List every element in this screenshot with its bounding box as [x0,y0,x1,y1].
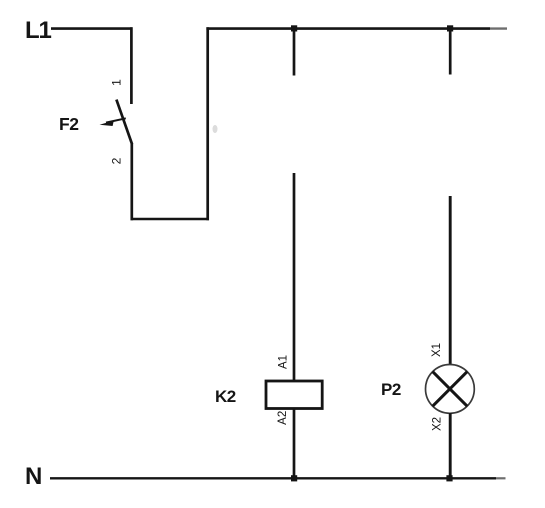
wire K2 branch stub from rail [293,29,296,76]
wire bottom of F2 loop [131,218,210,221]
junction dot at P2 branch on L1 rail [447,25,453,31]
wire P2 branch lower segment to N rail [449,413,452,479]
lamp P2 circle [426,365,475,414]
wire K2 branch upper segment [293,173,296,382]
wire below contact F2 [130,143,133,220]
junction dot at K2 branch on N rail [291,475,297,481]
wire N rail [50,477,496,479]
svg-text:2: 2 [110,157,124,164]
contact F2 actuator arrowhead [100,121,114,126]
wire P2 branch stub from rail [449,29,452,75]
svg-text:K2: K2 [215,387,236,406]
coil K2 [266,381,322,409]
svg-text:X2: X2 [432,417,444,431]
junction dot at K2 branch on L1 rail [291,25,297,31]
svg-text:A1: A1 [278,355,290,369]
contact F2 blade [116,100,132,144]
wire N rail faded right end [496,477,506,479]
wire L1 rail faded right end [490,27,507,29]
svg-text:1: 1 [110,79,124,86]
wire K2 branch lower segment to N rail [293,409,296,480]
wire L1 rail right segment [206,27,490,30]
svg-text:P2: P2 [381,380,401,399]
svg-text:A2: A2 [277,411,289,425]
wire L1 rail left segment [51,27,133,30]
wire P2 branch upper segment [449,196,452,365]
wire drop from L1 rail to contact F2 [130,27,133,104]
contact F2 actuator arrow shaft [106,118,126,122]
junction dot at P2 branch on N rail [446,475,452,481]
svg-text:L1: L1 [25,17,51,44]
faint smudge artifact near riser [213,125,218,133]
svg-text:F2: F2 [59,114,79,134]
svg-text:N: N [25,463,42,490]
lamp P2 cross stroke 2 [433,372,468,407]
svg-text:X1: X1 [431,343,443,357]
lamp P2 cross stroke 1 [433,372,468,407]
wire riser back to top rail [206,27,209,220]
